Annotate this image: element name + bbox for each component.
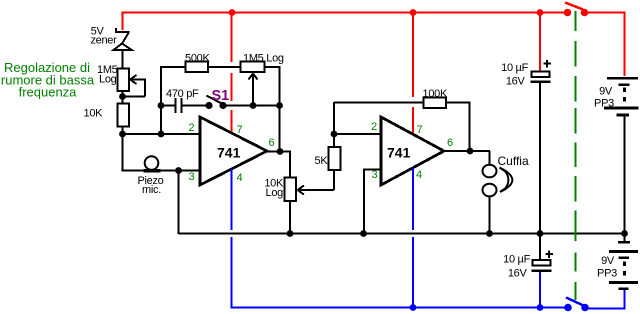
wire: R2 to U1 pin2 row: [122, 127, 124, 135]
svg-text:10 µF: 10 µF: [501, 62, 528, 74]
wire: U2 feedback right vertical: [469, 103, 471, 152]
node: R1 wiper junction: [119, 93, 126, 100]
switch SW-b bottom contacts: [564, 304, 572, 312]
wire: red drop to battery B1: [624, 13, 626, 77]
switch SW-a lever: [565, 3, 583, 10]
wire: red stub to zener: [122, 12, 124, 31]
resistor R3 500K body: [186, 62, 209, 73]
wire: B1 to ground rail: [624, 116, 626, 234]
node: capacitors ground junction: [537, 230, 544, 237]
switch SW-a top contacts: [564, 9, 572, 17]
C2 plus sign: [546, 60, 548, 68]
wire: R4 right to corner: [265, 66, 281, 68]
op-amp U2 741: [381, 117, 444, 185]
wire: R3 to R4: [208, 66, 242, 68]
wire: green dash over rail: [575, 229, 577, 241]
headphone band arc: [500, 168, 513, 193]
wire: C2 to ground rail: [539, 83, 541, 234]
node: headphone ground junction: [486, 230, 493, 237]
svg-text:2: 2: [189, 122, 195, 134]
potentiometer R4 1M5 Log body: [241, 62, 265, 73]
switch S1 lever: [207, 96, 223, 105]
wire: U1 pin2 row: [123, 133, 201, 135]
headphone Cuffia earpieces: [483, 165, 497, 178]
node: pin2/R2/mic junction: [119, 131, 126, 138]
wire: red drop to capacitor C2: [539, 12, 541, 72]
svg-text:16V: 16V: [506, 76, 526, 88]
wire: feedback right vertical: [279, 67, 281, 152]
svg-text:6: 6: [269, 137, 275, 149]
wire: feedback left vertical: [160, 66, 162, 134]
wire: down to mic row: [122, 134, 124, 172]
op-amp U1 741: [200, 117, 267, 185]
wire: U2 feedback top row: [334, 102, 424, 104]
wire: R7 to right vertical: [446, 102, 471, 104]
node: pin3/ground junction: [175, 167, 182, 174]
wire: R5 bottom to ground rail: [289, 201, 291, 234]
svg-text:741: 741: [387, 145, 411, 161]
svg-text:470 pF: 470 pF: [166, 88, 199, 100]
resistor R2 10K body: [118, 104, 130, 127]
switch S1 contacts: [205, 102, 212, 109]
wire: U2 feedback left vertical: [333, 102, 335, 134]
wire: cap row left: [161, 105, 175, 107]
wire: +9V top red rail: [122, 12, 568, 14]
zener D1 5V: [114, 28, 132, 50]
svg-text:16V: 16V: [508, 268, 528, 280]
wire: down to headphone: [489, 151, 491, 165]
wire: feedback top row: [161, 66, 187, 68]
svg-text:Cuffia: Cuffia: [498, 154, 529, 168]
resistor R7 100K body: [424, 98, 447, 109]
node: C3 rail junction: [537, 304, 544, 311]
node: R6/feedback/pin2 junction: [331, 131, 338, 138]
svg-text:PP3: PP3: [597, 268, 617, 280]
piezo mic MIC1: [144, 169, 161, 173]
svg-text:7: 7: [417, 124, 423, 136]
potentiometer R5 10K Log body: [285, 178, 297, 202]
wire: mic row to U1 pin3: [123, 170, 201, 172]
wire: B2 to blue rail switch: [585, 290, 625, 309]
svg-text:4: 4: [416, 169, 422, 181]
svg-text:741: 741: [217, 145, 241, 161]
svg-text:mic.: mic.: [142, 184, 161, 196]
node: U2 output: [467, 148, 474, 155]
node: battery ground junction: [621, 230, 628, 237]
node: S1 row / right vertical: [276, 102, 283, 109]
potentiometer R5 wiper arrow: [298, 170, 335, 195]
wire: output down to volume pot R5: [289, 152, 291, 179]
svg-text:6: 6: [447, 137, 453, 149]
svg-text:9V: 9V: [599, 86, 613, 98]
svg-text:frequenza: frequenza: [19, 85, 78, 100]
svg-text:10K: 10K: [84, 108, 104, 120]
node: U2 pin4 rail junction: [410, 304, 417, 311]
wire: R6 top to U2 pin2 row: [333, 134, 335, 147]
potentiometer R1 1M5 Log body: [118, 69, 130, 92]
wire: U2 pin4 blue: [412, 168, 414, 230]
node: R4 wiper junction: [250, 102, 257, 109]
svg-text:zener: zener: [90, 35, 117, 47]
wire: R1 bottom to R2: [122, 91, 124, 104]
resistor R6 body: [329, 147, 341, 170]
node: R5 ground junction: [287, 230, 294, 237]
potentiometer R4 wiper arrow: [249, 74, 258, 106]
svg-text:10 µF: 10 µF: [503, 254, 530, 266]
wire: pin3 down to ground rail: [363, 170, 365, 235]
wire: top rail right of switch: [585, 12, 626, 14]
wire: mic row down to ground rail: [178, 171, 180, 235]
node: rail junction C2: [537, 9, 544, 16]
node: pin2/feedback junction: [158, 131, 165, 138]
wire: U1 output to node: [267, 151, 291, 153]
svg-text:4: 4: [237, 172, 243, 184]
wire: U1 pin7 supply: [231, 12, 233, 62]
wire: headphone to ground rail: [489, 196, 491, 234]
wire: C1 to S1: [182, 105, 209, 107]
svg-text:9V: 9V: [601, 255, 615, 267]
svg-text:Log: Log: [99, 74, 117, 86]
node: U2 pin3 ground junction: [360, 230, 367, 237]
wire: U2 pin7 supply: [412, 12, 414, 97]
wire: -9V bottom blue rail: [231, 307, 569, 309]
svg-text:3: 3: [189, 171, 195, 183]
capacitor C3 10uF 16V bottom: [539, 233, 541, 260]
C2 plates: [532, 72, 550, 78]
wire: U2 pin3 stub: [363, 169, 381, 171]
svg-text:3: 3: [372, 169, 378, 181]
svg-text:2: 2: [371, 121, 377, 133]
node: rail junction U2 pin7: [410, 9, 417, 16]
svg-text:S1: S1: [212, 88, 230, 104]
wire: C3 to blue rail: [539, 272, 541, 308]
potentiometer R1 wiper arrow: [123, 75, 146, 97]
C3 plates: [533, 260, 551, 266]
svg-text:7: 7: [237, 124, 243, 136]
wire: U1 pin4 blue: [231, 169, 233, 230]
wire: U2 pin2 row: [334, 133, 381, 135]
switch SW-b lever: [566, 298, 585, 307]
wire: ground middle rail: [179, 233, 626, 235]
capacitor C1 470pF: [175, 98, 177, 113]
green dashed switch coupling line: [575, 11, 577, 300]
wire: S1 to feedback right vertical: [223, 105, 280, 107]
node: U1 output: [277, 148, 284, 155]
svg-text:Log: Log: [266, 187, 284, 199]
node: rail junction U1 pin7: [229, 9, 236, 16]
C3 plus sign: [548, 251, 550, 259]
wire: zener to pot R1: [122, 49, 124, 69]
wire: U2 output row: [444, 150, 490, 152]
node: cap row / left vertical: [158, 102, 165, 109]
